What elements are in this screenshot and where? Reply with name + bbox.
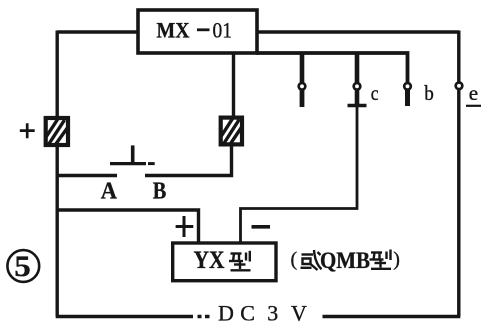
label A bbox=[101, 179, 118, 205]
svg-text:QMB: QMB bbox=[320, 248, 370, 274]
wire switch contact A bbox=[57, 174, 117, 177]
svg-text:YX: YX bbox=[194, 247, 225, 274]
svg-text:5: 5 bbox=[14, 250, 31, 283]
wire top-right from MX-01 to right rail bbox=[256, 30, 459, 33]
wire stub of terminal c (upper) bbox=[355, 52, 360, 84]
wire left rail (vertical) bbox=[56, 31, 59, 317]
sounder YX box bbox=[173, 243, 276, 281]
wire from left rail to YX plus terminal bbox=[57, 210, 199, 243]
wire bottom rail left segment bbox=[56, 315, 210, 318]
pushbutton switch actuator bbox=[110, 145, 155, 163]
terminal circle e bbox=[456, 83, 463, 90]
svg-text:): ) bbox=[393, 249, 400, 271]
label B bbox=[153, 179, 167, 205]
svg-text:V: V bbox=[291, 300, 307, 325]
label b bbox=[424, 81, 434, 105]
svg-text:e: e bbox=[469, 81, 478, 105]
wire stub of unlabeled terminal (upper) bbox=[300, 53, 305, 83]
svg-text:(: ( bbox=[291, 249, 298, 271]
label e (underlined) bbox=[466, 81, 481, 106]
terminal circle c bbox=[354, 83, 361, 90]
svg-text:D: D bbox=[218, 300, 234, 325]
wire from terminal c down to YX minus terminal bbox=[241, 104, 358, 243]
wire top-left from left rail to MX-01 bbox=[57, 30, 140, 33]
terminal circle (unlabeled) bbox=[299, 83, 306, 90]
label DC 3V bbox=[218, 300, 307, 325]
polarity + at YX bbox=[176, 216, 194, 237]
wire MX-01 bottom to electrode E2 bbox=[232, 54, 235, 117]
label (or QMB type) bbox=[291, 248, 400, 274]
svg-text:01: 01 bbox=[213, 18, 233, 43]
wire stub of terminal c (lower) bbox=[355, 90, 360, 104]
wire stub of unlabeled terminal (lower) bbox=[300, 90, 305, 107]
wire bus from MX-01 bottom-right to terminal b bbox=[256, 53, 408, 82]
svg-text:c: c bbox=[371, 81, 379, 105]
label MX-01 bbox=[157, 18, 233, 43]
wire bottom rail right segment bbox=[323, 315, 461, 318]
wire stub of terminal b (lower) bbox=[405, 90, 410, 106]
svg-text:3: 3 bbox=[267, 300, 278, 325]
svg-text:b: b bbox=[424, 81, 434, 105]
polarity minus at YX bbox=[252, 225, 271, 229]
wire switch contact B rising to electrode E2 bbox=[145, 146, 232, 176]
svg-text:A: A bbox=[101, 179, 118, 205]
electrode plate E2 (hatched) bbox=[221, 118, 242, 145]
label c bbox=[371, 81, 379, 105]
svg-text:C: C bbox=[240, 300, 255, 325]
terminal circle b bbox=[404, 83, 411, 90]
crossbar clip on terminal c lead bbox=[348, 104, 367, 107]
svg-text:B: B bbox=[153, 179, 167, 205]
wire right rail (vertical) bbox=[457, 31, 460, 317]
polarity + at electrode E1 bbox=[20, 123, 35, 138]
electrode plate E1 (hatched) bbox=[46, 118, 68, 145]
label YX type bbox=[194, 247, 251, 274]
svg-text:MX: MX bbox=[157, 18, 190, 43]
module MX-01 box bbox=[138, 10, 257, 53]
figure number 5 (circled) bbox=[7, 250, 39, 283]
